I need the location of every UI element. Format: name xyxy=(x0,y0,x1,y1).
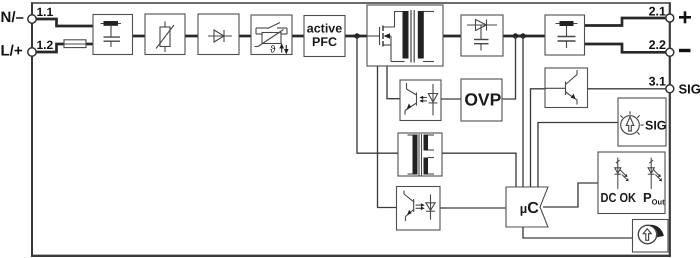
svg-text:3.1: 3.1 xyxy=(649,75,666,89)
svg-text:OVP: OVP xyxy=(464,90,501,110)
svg-text:2.2: 2.2 xyxy=(649,38,666,52)
svg-text:µC: µC xyxy=(520,200,540,217)
svg-text:PFC: PFC xyxy=(312,35,337,49)
svg-text:ϑ: ϑ xyxy=(270,45,276,56)
svg-text:1.2: 1.2 xyxy=(37,38,54,52)
svg-text:SIG: SIG xyxy=(645,118,667,132)
svg-text:active: active xyxy=(307,22,342,36)
svg-text:L/+: L/+ xyxy=(1,43,23,60)
svg-text:2.1: 2.1 xyxy=(649,5,666,19)
svg-text:SIG: SIG xyxy=(679,82,700,97)
svg-text:N/–: N/– xyxy=(1,9,24,26)
svg-text:1.1: 1.1 xyxy=(37,5,54,19)
svg-text:DC OK: DC OK xyxy=(601,190,637,205)
